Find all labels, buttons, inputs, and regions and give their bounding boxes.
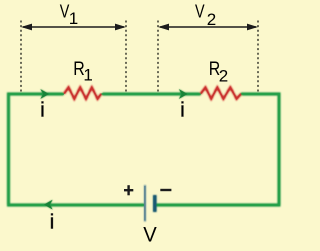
svg-text:i: i [50, 212, 54, 234]
svg-text:i: i [40, 99, 44, 121]
svg-text:1: 1 [69, 9, 78, 28]
svg-text:2: 2 [219, 66, 228, 85]
svg-text:V: V [195, 1, 205, 22]
svg-text:i: i [180, 99, 184, 121]
svg-text:1: 1 [83, 66, 92, 85]
svg-text:V: V [143, 223, 157, 247]
svg-text:2: 2 [207, 10, 216, 29]
